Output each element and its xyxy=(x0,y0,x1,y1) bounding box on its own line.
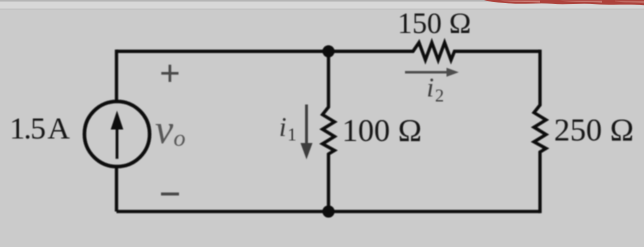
svg-text:150 Ω: 150 Ω xyxy=(398,8,472,40)
wire: right side with resistor xyxy=(534,50,546,214)
plus sign (polarity of vo) xyxy=(161,65,178,82)
current source arrow xyxy=(116,127,119,159)
svg-text:i: i xyxy=(279,112,287,142)
svg-text:1.5: 1.5 xyxy=(10,111,46,146)
svg-text:i: i xyxy=(427,73,435,103)
page-edge red strip xyxy=(484,0,644,5)
svg-text:o: o xyxy=(174,126,186,152)
svg-text:1: 1 xyxy=(288,125,297,145)
svg-text:250 Ω: 250 Ω xyxy=(554,112,634,148)
svg-text:2: 2 xyxy=(435,86,444,106)
wire: left side upper segment xyxy=(115,50,118,102)
wire: left side lower segment xyxy=(115,166,118,211)
current arrow i1 (downward) xyxy=(305,105,308,146)
current arrow i2 (rightward) xyxy=(405,71,448,74)
node A (top junction dot) xyxy=(322,45,334,57)
minus sign (polarity of vo) xyxy=(161,193,179,196)
svg-text:100 Ω: 100 Ω xyxy=(342,112,422,148)
node B (bottom junction dot) xyxy=(322,205,334,217)
wire: bottom side xyxy=(117,210,541,213)
svg-text:v: v xyxy=(155,106,174,152)
current source 1.5 A (circle) xyxy=(84,101,149,166)
svg-text:A: A xyxy=(48,111,71,146)
wire: top side with resistor path xyxy=(117,43,541,60)
wire: middle branch with resistor xyxy=(323,51,335,211)
